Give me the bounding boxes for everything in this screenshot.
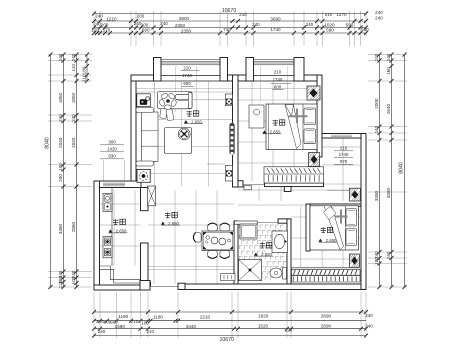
room label master bedroom xyxy=(273,120,278,125)
tv cabinet box living xyxy=(137,94,151,107)
svg-text:2210: 2210 xyxy=(200,314,211,319)
svg-text:1190: 1190 xyxy=(118,314,128,319)
room label kitchen xyxy=(113,219,118,224)
pillar top 1 xyxy=(154,58,162,82)
svg-text:1740: 1740 xyxy=(273,77,283,82)
dimension left total 8040 xyxy=(50,55,52,288)
pillar top 3 xyxy=(246,58,254,82)
svg-text:210: 210 xyxy=(131,319,139,324)
balcony sliding door line xyxy=(291,266,360,268)
window dim extension lines master bay xyxy=(260,66,262,100)
svg-text:200: 200 xyxy=(58,174,63,182)
washbasin bathroom xyxy=(272,231,288,253)
wall left exterior upper xyxy=(131,75,136,186)
floor mosaic tiles bathroom xyxy=(239,225,242,228)
svg-text:930: 930 xyxy=(108,154,116,159)
pillar top 2 xyxy=(220,58,228,82)
svg-text:1180: 1180 xyxy=(153,314,163,319)
svg-text:2640: 2640 xyxy=(386,103,391,114)
svg-text:690: 690 xyxy=(142,28,150,33)
wall box leader line xyxy=(193,99,225,101)
svg-text:1740: 1740 xyxy=(270,27,281,32)
floor tile grid second bedroom xyxy=(300,207,302,268)
washing machine bathroom xyxy=(240,224,257,239)
floor tile grid dining room xyxy=(153,190,155,284)
svg-text:210: 210 xyxy=(146,329,154,334)
wall master bedroom left xyxy=(233,75,239,187)
svg-text:1850: 1850 xyxy=(58,92,63,103)
kitchen counter xyxy=(111,188,113,267)
wall bottom step xyxy=(148,282,151,286)
svg-text:240: 240 xyxy=(98,329,106,334)
svg-text:2350: 2350 xyxy=(175,23,186,28)
wall hook master bedroom door xyxy=(238,181,243,187)
svg-text:210: 210 xyxy=(340,146,348,151)
toilet bathroom xyxy=(270,268,282,278)
svg-text:2000: 2000 xyxy=(374,98,379,109)
window dim extension lines living bay xyxy=(174,66,176,112)
dresser master bedroom xyxy=(249,105,264,128)
wall top left segment xyxy=(131,75,154,81)
wall tab below wardrobe xyxy=(284,187,291,192)
wall label strip living xyxy=(229,123,234,155)
svg-text:590: 590 xyxy=(346,22,354,27)
master bedroom door opening line xyxy=(243,184,265,186)
svg-text:8040: 8040 xyxy=(399,162,405,174)
wall bathroom right xyxy=(287,219,291,284)
svg-text:100: 100 xyxy=(58,163,63,171)
svg-text:240: 240 xyxy=(95,13,103,18)
room label dining xyxy=(165,212,170,217)
dimension bottom row3 xyxy=(94,328,366,330)
svg-text:210: 210 xyxy=(325,12,333,17)
bathroom door lintel xyxy=(234,221,257,224)
room elevation living xyxy=(184,120,188,123)
floor tile grid living room xyxy=(153,82,155,187)
dining table with chairs xyxy=(202,231,234,251)
wall master bedroom right xyxy=(317,75,322,157)
floor tile grid master bedroom xyxy=(251,82,253,182)
column C4 balcony right xyxy=(350,254,360,267)
kitchen inner south boundary xyxy=(100,266,141,280)
wall second bedroom top xyxy=(306,204,361,206)
wall wing top with window xyxy=(322,134,361,139)
dimension top total 10670 xyxy=(94,13,366,15)
balcony railing hatch xyxy=(292,268,361,270)
dimension bottom total 10670 xyxy=(94,335,366,337)
svg-text:2040: 2040 xyxy=(71,137,76,148)
wall master bedroom bottom xyxy=(265,183,324,187)
wall kitchen divider lower xyxy=(141,243,149,284)
svg-text:710: 710 xyxy=(223,27,231,32)
svg-text:1210: 1210 xyxy=(106,16,117,21)
svg-text:120: 120 xyxy=(285,328,293,333)
dimension right row2 xyxy=(379,55,381,288)
wall box E1 living xyxy=(225,94,232,106)
column C3 wing bottom right xyxy=(349,188,360,201)
svg-text:200: 200 xyxy=(137,13,145,18)
extension lines bottom xyxy=(93,292,95,338)
room label bathroom xyxy=(260,243,265,248)
svg-text:10670: 10670 xyxy=(222,8,237,14)
room label living xyxy=(187,111,192,116)
floor tile grid kitchen xyxy=(113,190,115,266)
wall second bedroom left xyxy=(306,204,310,251)
wall bathroom top stub xyxy=(278,219,291,223)
dimension bottom row2 xyxy=(94,320,366,322)
svg-text:1420: 1420 xyxy=(107,147,117,152)
svg-text:570: 570 xyxy=(103,27,111,32)
wall kitchen divider foot xyxy=(140,281,150,291)
floor tile grid hallway and wing xyxy=(258,187,260,201)
wall bottom kitchen section xyxy=(94,285,148,290)
entry threshold xyxy=(151,286,179,288)
svg-text:2860: 2860 xyxy=(71,221,76,232)
svg-text:2690: 2690 xyxy=(321,313,332,318)
kitchen sink xyxy=(103,193,112,211)
wall kitchen divider upper xyxy=(141,188,149,211)
svg-text:240: 240 xyxy=(375,10,383,15)
wall left exterior lower xyxy=(94,181,100,290)
svg-text:240: 240 xyxy=(375,15,383,20)
svg-text:1520: 1520 xyxy=(258,324,269,329)
dimension top row3 xyxy=(94,27,366,29)
column C1 master bedroom top right xyxy=(307,86,320,100)
svg-text:210: 210 xyxy=(183,66,191,71)
extension lines left xyxy=(48,54,92,56)
dimension left row3 xyxy=(76,55,78,288)
svg-text:1270: 1270 xyxy=(336,12,347,17)
dimension top row2 xyxy=(94,20,366,22)
svg-text:3380: 3380 xyxy=(386,187,391,198)
door leaf stub master bedroom xyxy=(244,186,252,190)
svg-text:970: 970 xyxy=(340,159,348,164)
svg-text:120: 120 xyxy=(91,27,99,32)
svg-text:240: 240 xyxy=(306,22,314,27)
svg-text:1740: 1740 xyxy=(339,152,349,157)
svg-text:3800: 3800 xyxy=(179,16,190,21)
svg-text:180: 180 xyxy=(81,66,86,74)
room elevation master bedroom xyxy=(263,130,267,133)
svg-text:600: 600 xyxy=(183,81,191,86)
bed master bedroom xyxy=(266,104,317,150)
room elevation dining xyxy=(161,222,165,225)
side table with lamp living xyxy=(137,169,150,182)
svg-text:300: 300 xyxy=(108,140,116,145)
svg-text:590: 590 xyxy=(326,27,334,32)
dimension right row3 xyxy=(391,55,393,288)
svg-text:2690: 2690 xyxy=(321,324,332,329)
wall top right segment xyxy=(304,75,317,81)
shower bathroom xyxy=(239,260,262,281)
svg-text:8040: 8040 xyxy=(45,137,51,149)
wall entry right stub xyxy=(178,283,185,289)
bathroom door threshold xyxy=(257,221,278,223)
svg-text:10670: 10670 xyxy=(219,337,234,343)
bay window living room xyxy=(161,59,220,61)
svg-text:3440: 3440 xyxy=(186,324,197,329)
dimension top row4 xyxy=(94,32,366,34)
extension lines right xyxy=(368,54,407,56)
top sofa with decor living xyxy=(158,92,193,109)
sofa living xyxy=(136,112,141,162)
svg-text:200: 200 xyxy=(141,22,149,27)
dimension left row4 xyxy=(86,55,88,82)
room elevation bathroom xyxy=(254,253,258,256)
dimension bottom row1 xyxy=(94,311,366,313)
dimension right total 8040 xyxy=(404,55,406,288)
column C2 master bedroom bottom right xyxy=(309,153,320,167)
svg-text:240: 240 xyxy=(160,21,168,26)
bed second bedroom xyxy=(310,206,359,250)
svg-text:240: 240 xyxy=(365,324,373,329)
svg-text:1820: 1820 xyxy=(258,313,269,318)
svg-text:210: 210 xyxy=(274,70,282,75)
wall jog with kitchen window xyxy=(96,181,141,188)
shoe cabinet dining xyxy=(221,274,235,281)
wall box E2 living xyxy=(207,163,225,165)
coffee table living xyxy=(165,128,192,154)
bay window master bedroom xyxy=(254,59,295,61)
svg-text:1850: 1850 xyxy=(71,92,76,103)
svg-text:1590: 1590 xyxy=(115,324,126,329)
svg-text:110: 110 xyxy=(71,64,76,72)
svg-text:2040: 2040 xyxy=(58,137,63,148)
wall top middle segment xyxy=(228,75,247,81)
wall right exterior xyxy=(361,134,366,290)
svg-text:160: 160 xyxy=(386,67,391,75)
svg-text:3090: 3090 xyxy=(270,17,281,22)
kitchen stove xyxy=(103,237,112,258)
wall bathroom left xyxy=(234,221,238,284)
svg-text:530: 530 xyxy=(361,27,369,32)
extension lines top xyxy=(99,11,101,36)
room elevation second bedroom xyxy=(319,239,323,242)
wardrobe master bedroom xyxy=(264,167,324,183)
pillar top 4 xyxy=(294,58,304,82)
wall bottom main xyxy=(178,284,366,290)
room elevation kitchen xyxy=(109,229,113,232)
svg-text:3480: 3480 xyxy=(58,223,63,234)
svg-text:2350: 2350 xyxy=(181,29,192,34)
svg-text:240: 240 xyxy=(365,313,373,318)
duct shaft with cross xyxy=(148,186,156,206)
svg-text:1740: 1740 xyxy=(182,73,192,78)
svg-text:600: 600 xyxy=(274,84,282,89)
dimension left row2 xyxy=(63,55,65,288)
room label second bedroom xyxy=(321,227,326,232)
